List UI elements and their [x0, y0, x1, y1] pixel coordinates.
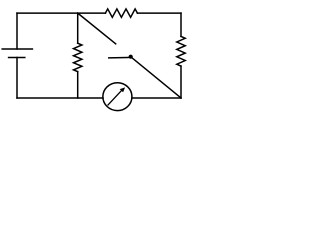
galvanometer M1 needle	[108, 90, 122, 105]
wire middle vertical lower	[77, 72, 79, 98]
wire right vertical upper	[180, 13, 182, 36]
switch S1 pivot dot	[129, 55, 133, 59]
galvanometer M1 needle arrowhead	[120, 87, 125, 92]
wire left vertical upper	[16, 13, 18, 49]
wire top-left horizontal	[17, 12, 105, 14]
wire bottom-left horizontal	[17, 97, 103, 99]
wire left vertical lower	[16, 58, 18, 99]
resistor R1 (top horizontal)	[105, 9, 137, 17]
wire top-right horizontal	[137, 12, 181, 14]
resistor R3 (right vertical)	[177, 36, 185, 66]
galvanometer M1 circle	[103, 83, 132, 111]
wire diagonal dot to bottom-right corner	[131, 57, 181, 98]
switch S1 wire from node A diagonal	[78, 13, 116, 44]
wire middle vertical upper	[77, 13, 79, 43]
resistor R2 (middle vertical)	[74, 43, 82, 71]
wire bottom-right horizontal	[132, 97, 181, 99]
switch S1 lever arm	[109, 56, 131, 59]
wire right vertical lower	[180, 66, 182, 98]
battery B1 short plate	[9, 57, 25, 59]
battery B1 long plate	[2, 48, 32, 50]
